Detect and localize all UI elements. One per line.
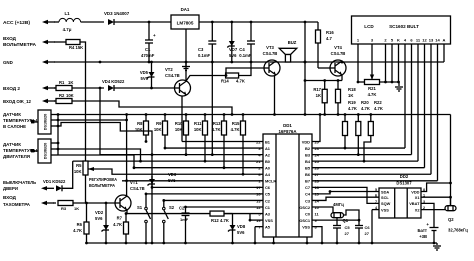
- svg-text:C1: C1: [145, 47, 151, 52]
- svg-text:VDD: VDD: [302, 139, 310, 144]
- svg-text:C6: C6: [365, 225, 371, 230]
- svg-text:SCL: SCL: [381, 195, 389, 200]
- svg-text:VD5: VD5: [140, 70, 149, 75]
- svg-text:12: 12: [422, 38, 427, 43]
- svg-text:4.7μ: 4.7μ: [63, 27, 72, 32]
- svg-text:B4: B4: [305, 159, 311, 164]
- svg-text:R11: R11: [194, 121, 202, 126]
- svg-text:4.7K: 4.7K: [220, 218, 229, 223]
- svg-text:ВХОД ОЖ_12: ВХОД ОЖ_12: [3, 99, 32, 104]
- svg-text:+: +: [426, 222, 429, 227]
- svg-text:4.7K: 4.7K: [212, 127, 221, 132]
- svg-text:10K: 10K: [74, 169, 82, 174]
- svg-text:14: 14: [435, 38, 440, 43]
- svg-text:B0: B0: [265, 159, 270, 164]
- svg-text:ДАТЧИК: ДАТЧИК: [3, 112, 21, 117]
- svg-text:VBAT: VBAT: [409, 201, 420, 206]
- svg-text:DS1307: DS1307: [396, 181, 412, 186]
- svg-text:ВЫКЛЮЧАТЕЛЬ: ВЫКЛЮЧАТЕЛЬ: [3, 180, 36, 185]
- svg-text:B3: B3: [305, 152, 311, 157]
- svg-text:R2: R2: [59, 93, 65, 98]
- svg-text:VT1: VT1: [130, 180, 138, 185]
- svg-text:R12: R12: [211, 218, 219, 223]
- svg-text:DS18B20: DS18B20: [44, 143, 48, 159]
- svg-text:VD4 KD522: VD4 KD522: [102, 79, 125, 84]
- svg-text:ТАХОМЕТРА: ТАХОМЕТРА: [3, 202, 31, 207]
- svg-text:C5: C5: [265, 192, 271, 197]
- svg-text:ДАТЧИК: ДАТЧИК: [3, 142, 21, 147]
- svg-text:B1: B1: [265, 139, 271, 144]
- svg-text:+3В: +3В: [419, 234, 427, 239]
- svg-text:DS18B20: DS18B20: [44, 114, 48, 130]
- svg-text:B6: B6: [305, 172, 311, 177]
- svg-text:ВОЛЬТМЕТРА: ВОЛЬТМЕТРА: [3, 42, 37, 47]
- svg-text:B5: B5: [305, 166, 311, 171]
- svg-text:0.1mF: 0.1mF: [239, 53, 252, 58]
- svg-text:R14: R14: [221, 79, 229, 84]
- svg-text:R8: R8: [137, 121, 143, 126]
- svg-text:+: +: [153, 33, 156, 38]
- svg-text:R15: R15: [232, 121, 240, 126]
- svg-text:SQW: SQW: [381, 201, 391, 206]
- svg-text:R13: R13: [213, 121, 221, 126]
- svg-text:DD2: DD2: [400, 174, 409, 179]
- svg-text:CS4.7B: CS4.7B: [263, 51, 278, 56]
- svg-text:В САЛОНЕ: В САЛОНЕ: [3, 124, 26, 129]
- svg-text:B2: B2: [305, 146, 311, 151]
- svg-text:4.7K: 4.7K: [361, 106, 370, 111]
- svg-text:Батт: Батт: [418, 228, 427, 233]
- svg-text:10K: 10K: [66, 93, 74, 98]
- svg-text:VSS: VSS: [381, 207, 389, 212]
- svg-text:VT3: VT3: [266, 45, 274, 50]
- svg-text:4.7K: 4.7K: [231, 127, 240, 132]
- svg-text:10K: 10K: [175, 127, 183, 132]
- svg-text:4МГц: 4МГц: [333, 202, 344, 207]
- svg-text:BUZ: BUZ: [288, 40, 297, 45]
- svg-text:16F876A: 16F876A: [278, 129, 297, 134]
- svg-text:32,768кГц: 32,768кГц: [448, 228, 468, 233]
- svg-text:1K: 1K: [348, 93, 353, 98]
- svg-text:C4: C4: [305, 192, 311, 197]
- svg-text:РЕГУЛИРОВКА: РЕГУЛИРОВКА: [89, 177, 117, 182]
- svg-text:4.7K: 4.7K: [368, 92, 377, 97]
- svg-text:LM7805: LM7805: [177, 21, 194, 26]
- svg-text:VD8: VD8: [237, 224, 246, 229]
- svg-text:K: K: [397, 38, 400, 43]
- svg-text:VT4: VT4: [334, 45, 342, 50]
- svg-text:C0: C0: [305, 211, 310, 216]
- svg-text:R22: R22: [374, 100, 382, 105]
- svg-text:ACC (+12В): ACC (+12В): [3, 20, 31, 25]
- svg-text:27: 27: [345, 231, 350, 236]
- svg-text:7: 7: [375, 200, 377, 204]
- svg-text:R19: R19: [348, 100, 356, 105]
- svg-text:CS4.7B: CS4.7B: [331, 51, 346, 56]
- svg-text:4.7K: 4.7K: [113, 222, 122, 227]
- svg-text:C2: C2: [179, 206, 185, 211]
- svg-text:R9: R9: [156, 121, 162, 126]
- svg-text:1K: 1K: [316, 93, 321, 98]
- svg-text:C3: C3: [305, 198, 311, 203]
- svg-text:5V6: 5V6: [141, 76, 149, 81]
- svg-text:4.7K: 4.7K: [236, 79, 245, 84]
- svg-text:A4: A4: [265, 172, 271, 177]
- svg-text:S1: S1: [137, 205, 143, 210]
- svg-text:4.7K: 4.7K: [73, 228, 82, 233]
- svg-text:L1: L1: [64, 11, 70, 16]
- svg-text:C3: C3: [198, 47, 204, 52]
- svg-text:S2: S2: [169, 205, 175, 210]
- svg-text:1mF: 1mF: [180, 217, 189, 222]
- svg-text:X1: X1: [415, 195, 421, 200]
- svg-text:5V6: 5V6: [237, 230, 245, 235]
- svg-text:1K: 1K: [68, 80, 73, 85]
- svg-text:X2: X2: [415, 207, 421, 212]
- svg-text:SDA: SDA: [381, 189, 389, 194]
- svg-text:VD7: VD7: [229, 47, 238, 52]
- svg-text:ВХОД 2: ВХОД 2: [3, 86, 21, 91]
- svg-text:C7: C7: [305, 185, 310, 190]
- svg-text:OSC2: OSC2: [299, 205, 310, 210]
- svg-text:LCD: LCD: [364, 24, 374, 29]
- svg-text:MCLR: MCLR: [265, 179, 276, 184]
- svg-text:R17: R17: [313, 87, 321, 92]
- svg-text:R1: R1: [59, 80, 65, 85]
- svg-text:5V6: 5V6: [229, 53, 237, 58]
- svg-text:A0: A0: [265, 166, 270, 171]
- svg-text:A2: A2: [265, 152, 271, 157]
- svg-text:VD3 1N4007: VD3 1N4007: [104, 11, 130, 16]
- svg-text:10K: 10K: [154, 127, 162, 132]
- svg-text:R18: R18: [348, 87, 356, 92]
- svg-text:R4 15K: R4 15K: [69, 45, 83, 50]
- svg-text:4.7K: 4.7K: [348, 106, 357, 111]
- svg-text:ДВЕРИ: ДВЕРИ: [3, 186, 18, 191]
- svg-text:ДВИГАТЕЛЯ: ДВИГАТЕЛЯ: [3, 154, 30, 159]
- svg-text:13: 13: [429, 38, 434, 43]
- svg-text:0.1mF: 0.1mF: [198, 53, 211, 58]
- svg-text:GND: GND: [3, 60, 13, 65]
- svg-text:27: 27: [365, 231, 370, 236]
- svg-text:R21: R21: [368, 86, 376, 91]
- svg-text:6: 6: [375, 194, 377, 198]
- svg-text:R7: R7: [117, 216, 123, 221]
- svg-text:470mF: 470mF: [141, 53, 155, 58]
- svg-text:A: A: [443, 38, 446, 43]
- svg-text:5V6: 5V6: [168, 178, 176, 183]
- svg-text:B7: B7: [305, 179, 310, 184]
- svg-text:C4: C4: [239, 47, 245, 52]
- svg-text:C5: C5: [345, 225, 351, 230]
- svg-text:VDD: VDD: [411, 189, 419, 194]
- svg-text:A3: A3: [265, 211, 271, 216]
- svg-text:10K: 10K: [194, 127, 202, 132]
- svg-text:C2: C2: [265, 198, 271, 203]
- svg-text:ВОЛЬТМЕТРА: ВОЛЬТМЕТРА: [89, 183, 115, 188]
- svg-text:VT2: VT2: [165, 67, 173, 72]
- svg-text:SC1602 BULT: SC1602 BULT: [389, 24, 419, 29]
- svg-text:R16: R16: [326, 30, 334, 35]
- svg-text:A1: A1: [265, 146, 271, 151]
- svg-text:1K: 1K: [74, 206, 79, 211]
- svg-text:OSC1: OSC1: [299, 218, 310, 223]
- svg-text:A5: A5: [265, 224, 271, 229]
- svg-text:ВХОД: ВХОД: [3, 36, 17, 41]
- svg-text:4.7K: 4.7K: [374, 106, 383, 111]
- svg-text:R3: R3: [61, 206, 67, 211]
- svg-text:5V6: 5V6: [95, 216, 103, 221]
- svg-text:Q2: Q2: [448, 217, 454, 222]
- svg-text:VD6: VD6: [168, 172, 177, 177]
- svg-text:R20: R20: [361, 100, 369, 105]
- svg-text:VD2: VD2: [95, 210, 104, 215]
- svg-text:DD1: DD1: [283, 123, 292, 128]
- svg-text:R6: R6: [77, 222, 83, 227]
- svg-text:C1: C1: [265, 205, 271, 210]
- svg-text:5: 5: [375, 188, 377, 192]
- svg-text:4.7: 4.7: [326, 36, 332, 41]
- svg-text:CS4.7B: CS4.7B: [165, 73, 180, 78]
- svg-text:DA1: DA1: [181, 7, 190, 12]
- svg-text:VD1 KD522: VD1 KD522: [43, 179, 66, 184]
- svg-text:R5: R5: [76, 163, 82, 168]
- svg-text:VSS: VSS: [265, 218, 273, 223]
- svg-text:R10: R10: [175, 121, 183, 126]
- svg-text:C6: C6: [265, 185, 271, 190]
- svg-text:CS4.7B: CS4.7B: [130, 186, 145, 191]
- svg-text:ВХОД: ВХОД: [3, 195, 17, 200]
- svg-text:VSS: VSS: [302, 224, 310, 229]
